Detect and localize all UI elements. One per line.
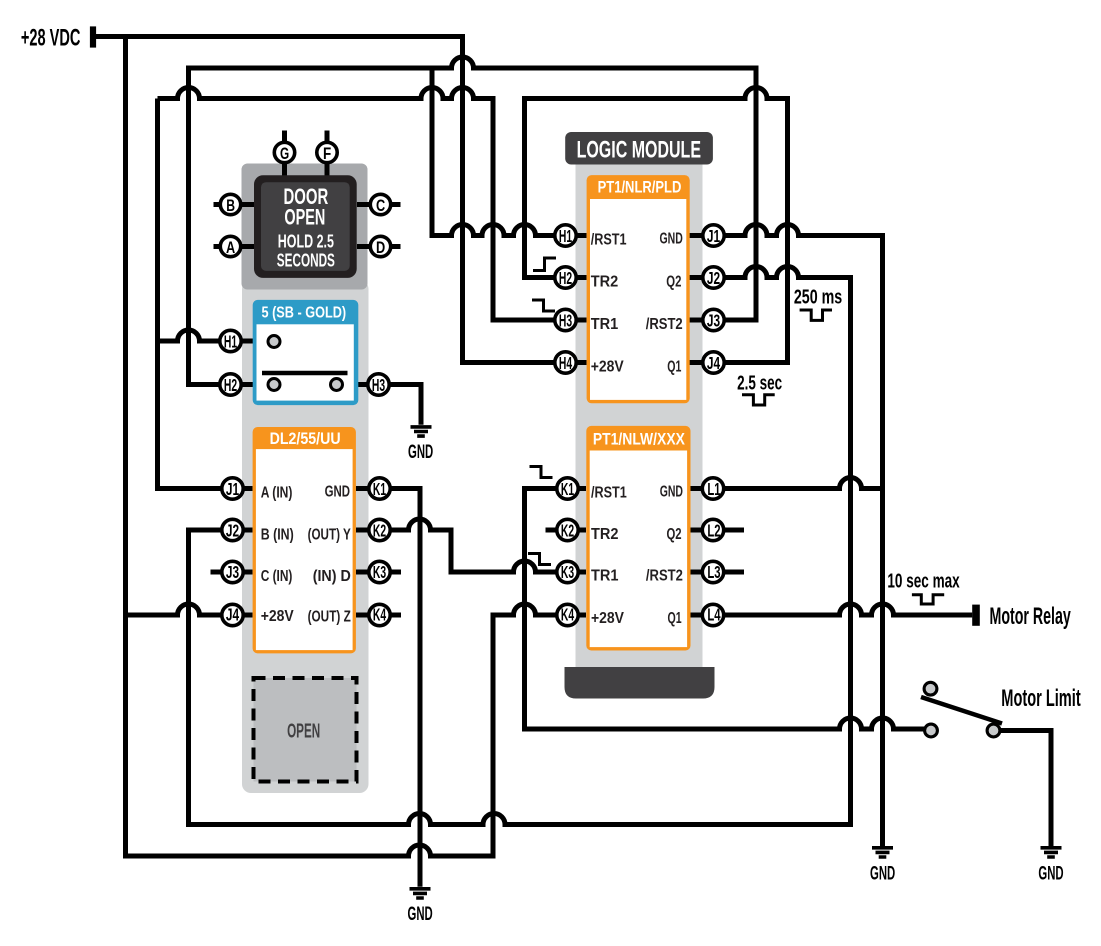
pin L2 PT1/NLW — [702, 519, 723, 540]
svg-text:J3: J3 — [707, 310, 720, 330]
svg-text:(IN) D: (IN) D — [313, 568, 351, 585]
relay box 5 (SB - GOLD) — [253, 300, 359, 405]
svg-text:GND: GND — [1038, 864, 1063, 885]
wire Q1 (L4) of PT1/NLW to Motor Relay — [690, 604, 972, 615]
ground motor limit — [1038, 848, 1063, 885]
svg-text:K3: K3 — [373, 562, 386, 582]
pin J4 DL2 — [222, 604, 243, 625]
pin stub L2 of PT1/NLW — [690, 528, 744, 533]
svg-text:GND: GND — [870, 864, 895, 885]
svg-text:G: G — [280, 144, 289, 163]
svg-text:B (IN): B (IN) — [261, 527, 294, 544]
svg-text:+28 VDC: +28 VDC — [21, 25, 81, 52]
svg-text:LOGIC MODULE: LOGIC MODULE — [577, 136, 701, 163]
label LOGIC MODULE — [565, 132, 713, 165]
pulse label 10 sec max — [887, 571, 959, 604]
pin J3 PT1/NLR — [703, 309, 724, 330]
svg-text:HOLD 2.5: HOLD 2.5 — [278, 232, 334, 252]
svg-text:5 (SB - GOLD): 5 (SB - GOLD) — [262, 304, 347, 321]
svg-text:H2: H2 — [224, 375, 237, 395]
svg-text:J4: J4 — [226, 604, 239, 624]
wire +28V left drop to bottom rail and K4 of PT1/NLW — [126, 37, 587, 857]
pin F — [317, 142, 337, 163]
pin H1 PT1/NLR — [555, 225, 576, 246]
svg-text:H1: H1 — [559, 226, 572, 246]
pin stub G — [282, 131, 287, 178]
pin J1 DL2 — [222, 478, 243, 499]
pin J2 DL2 — [222, 519, 243, 540]
svg-text:Motor Limit: Motor Limit — [1001, 686, 1080, 712]
pin K4 PT1/NLW — [557, 604, 578, 625]
wire +28V rail to H4 of PT1/NLR — [96, 37, 587, 363]
svg-text:K3: K3 — [561, 562, 574, 582]
pin H3 PT1/NLR — [555, 309, 576, 330]
pin stub B — [214, 202, 255, 207]
svg-text:J1: J1 — [226, 479, 239, 499]
pin K1 PT1/NLW — [557, 478, 578, 499]
pin stub K3 of DL2 — [356, 570, 401, 575]
svg-text:D: D — [376, 238, 385, 257]
svg-text:GND: GND — [325, 484, 350, 501]
logic module bottom cap — [565, 667, 715, 699]
pin H3 relay — [368, 374, 389, 395]
pin H1 relay — [220, 330, 241, 351]
wire +28V branch to J4 of DL2 — [126, 604, 253, 615]
pin stub L3 of PT1/NLW — [690, 570, 744, 575]
pin J4 PT1/NLR — [703, 352, 724, 373]
wire motor limit switch to ground — [994, 731, 1052, 847]
svg-text:J4: J4 — [707, 353, 720, 373]
motor relay terminal — [972, 603, 1071, 630]
pin K3 DL2 — [369, 561, 390, 582]
svg-text:J3: J3 — [226, 562, 239, 582]
svg-text:J2: J2 — [226, 520, 239, 540]
pin stub K2 of PT1/NLW — [546, 528, 587, 533]
svg-text:GND: GND — [408, 442, 433, 463]
module PT1/NLW/XXX — [586, 426, 690, 651]
relay contact bar — [262, 371, 348, 376]
pin L3 PT1/NLW — [702, 561, 723, 582]
pin K1 DL2 — [369, 478, 390, 499]
svg-text:Q2: Q2 — [667, 526, 682, 543]
svg-text:K2: K2 — [561, 520, 574, 540]
svg-text:10 sec max: 10 sec max — [887, 571, 959, 593]
wire node vertical to J1 (A IN) of DL2 — [158, 99, 253, 489]
svg-text:PT1/NLW/XXX: PT1/NLW/XXX — [593, 430, 686, 449]
svg-text:PT1/NLR/PLD: PT1/NLR/PLD — [598, 178, 682, 197]
pin C — [370, 194, 390, 215]
door-module gray backing — [242, 164, 368, 290]
svg-text:C (IN): C (IN) — [261, 568, 293, 585]
relay pin bottom-right — [331, 379, 343, 391]
svg-text:/RST1: /RST1 — [591, 485, 627, 502]
svg-text:Q2: Q2 — [666, 274, 681, 291]
pin L4 PT1/NLW — [702, 604, 723, 625]
svg-text:K2: K2 — [373, 520, 386, 540]
svg-text:H3: H3 — [372, 375, 385, 395]
svg-text:L3: L3 — [707, 562, 720, 582]
wire switch H2 net to /RST2 (J3) of PT1/NLR — [189, 57, 757, 385]
pin stub K4 of DL2 — [356, 613, 401, 618]
wire H3 of relay box to ground — [344, 385, 421, 425]
module PT1/NLR/PLD — [587, 175, 690, 403]
pin H2 PT1/NLR — [555, 267, 576, 288]
pin L1 PT1/NLW — [702, 478, 723, 499]
pin G — [274, 142, 294, 163]
pin stub F — [325, 131, 330, 178]
svg-text:TR1: TR1 — [591, 568, 619, 585]
svg-text:TR2: TR2 — [591, 274, 619, 291]
svg-text:K1: K1 — [561, 479, 574, 499]
svg-text:TR2: TR2 — [591, 526, 619, 543]
pin K4 DL2 — [369, 604, 390, 625]
wire /RST1 (K1) of PT1/NLW to motor limit switch — [525, 489, 932, 730]
svg-text:SECONDS: SECONDS — [277, 251, 335, 271]
ground logic module — [870, 848, 895, 885]
trigger edge icon TR2 PT1/NLR — [533, 258, 556, 271]
logic module gray strip — [576, 160, 703, 667]
door open block — [254, 175, 357, 278]
trigger edge icon TR1 PT1/NLW — [528, 554, 551, 565]
svg-text:GND: GND — [660, 231, 683, 248]
wire OUT Y (K2) of DL2 to TR1 (K3) of PT1/NLW — [356, 519, 586, 572]
svg-text:Q1: Q1 — [668, 610, 682, 627]
svg-text:+28V: +28V — [261, 608, 294, 625]
pin J3 DL2 — [222, 561, 243, 582]
ground below relay box — [408, 427, 433, 463]
pin stub D — [357, 244, 401, 249]
ground bottom left — [408, 889, 433, 925]
wire GND (J1) of PT1/NLR to ground — [690, 225, 883, 847]
pin K3 PT1/NLW — [557, 561, 578, 582]
svg-text:GND: GND — [408, 904, 433, 925]
svg-text:L4: L4 — [707, 604, 720, 624]
svg-text:K1: K1 — [373, 479, 386, 499]
relay pin bottom-left — [268, 379, 280, 391]
svg-text:+28V: +28V — [591, 359, 624, 376]
pin J1 PT1/NLR — [703, 225, 724, 246]
module DL2/55/UU — [253, 427, 356, 653]
svg-text:H3: H3 — [559, 310, 572, 330]
svg-text:/RST2: /RST2 — [646, 316, 683, 333]
svg-text:F: F — [323, 144, 331, 163]
svg-text:GND: GND — [660, 484, 683, 501]
svg-text:A (IN): A (IN) — [261, 485, 293, 502]
wire branch to /RST1 (H1) of PT1/NLR — [432, 68, 587, 236]
pulse label 250 ms — [794, 287, 842, 321]
svg-text:K4: K4 — [373, 604, 386, 624]
trigger edge icon TR1 PT1/NLR — [532, 300, 555, 311]
svg-text:A: A — [226, 238, 235, 257]
left gray module strip — [242, 280, 369, 793]
wire Q1 (J4) of PT1/NLR to TR2 (H2) — [525, 88, 788, 363]
pin stub C — [357, 202, 401, 207]
pin stub A — [214, 244, 255, 249]
svg-text:L1: L1 — [707, 479, 720, 499]
pin K2 DL2 — [369, 519, 390, 540]
wire Q2 (J2) of PT1/NLR to B IN (J2) of DL2 — [189, 267, 851, 825]
wire GND (K1) of DL2 to bottom ground — [356, 489, 420, 887]
relay pin top — [268, 336, 280, 348]
svg-text:H1: H1 — [224, 331, 237, 351]
wire top line to TR1 (H3) of PT1/NLR — [158, 88, 587, 321]
svg-text:B: B — [226, 196, 235, 215]
pin K2 PT1/NLW — [557, 519, 578, 540]
pin stub J3 of DL2 — [211, 570, 253, 575]
svg-text:/RST1: /RST1 — [591, 232, 627, 249]
pin A — [220, 236, 240, 256]
svg-text:+28V: +28V — [591, 610, 624, 627]
+28 VDC supply terminal — [21, 25, 96, 52]
svg-text:L2: L2 — [707, 520, 720, 540]
svg-text:OPEN: OPEN — [287, 720, 320, 743]
svg-text:(OUT) Y: (OUT) Y — [308, 527, 351, 544]
OPEN spare slot — [254, 678, 357, 782]
pin B — [220, 194, 240, 215]
pulse label 2.5 sec — [737, 372, 782, 405]
pin H4 PT1/NLR — [555, 352, 576, 373]
wire GND (L1) of PT1/NLW branch — [690, 478, 883, 489]
svg-text:TR1: TR1 — [591, 316, 619, 333]
svg-text:J1: J1 — [707, 226, 720, 246]
pin D — [370, 236, 390, 256]
svg-text:J2: J2 — [707, 268, 720, 288]
svg-text:(OUT) Z: (OUT) Z — [308, 609, 351, 626]
svg-text:2.5 sec: 2.5 sec — [737, 372, 782, 394]
svg-text:Q1: Q1 — [667, 359, 681, 376]
svg-text:H4: H4 — [559, 353, 572, 373]
motor limit switch — [921, 682, 1081, 737]
svg-text:250 ms: 250 ms — [794, 287, 842, 309]
wire H1 of relay box to vertical node — [158, 330, 268, 341]
trigger edge icon /RST1 PT1/NLW — [530, 467, 553, 478]
svg-text:Motor Relay: Motor Relay — [990, 603, 1072, 630]
svg-text:/RST2: /RST2 — [646, 568, 683, 585]
svg-text:H2: H2 — [559, 268, 572, 288]
svg-text:K4: K4 — [561, 604, 574, 624]
svg-text:DL2/55/UU: DL2/55/UU — [270, 429, 341, 448]
pin H2 relay — [220, 374, 241, 395]
svg-text:OPEN: OPEN — [284, 205, 325, 230]
svg-text:C: C — [376, 196, 385, 215]
pin J2 PT1/NLR — [703, 267, 724, 288]
